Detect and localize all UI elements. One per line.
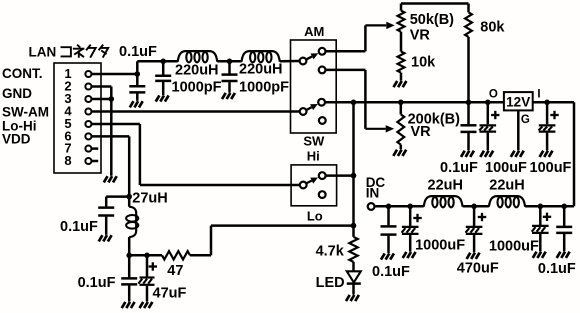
svg-text:VDD: VDD [2, 132, 31, 147]
svg-text:1000uF: 1000uF [415, 238, 465, 254]
svg-text:100uF: 100uF [530, 160, 572, 176]
svg-text:100uF: 100uF [485, 160, 527, 176]
svg-text:1000pF: 1000pF [239, 79, 289, 95]
svg-text:47uF: 47uF [153, 286, 187, 302]
svg-text:1000pF: 1000pF [172, 79, 222, 95]
svg-text:4.7k: 4.7k [316, 244, 345, 260]
svg-text:G: G [521, 114, 530, 126]
svg-text:22uH: 22uH [428, 178, 463, 194]
svg-text:0.1uF: 0.1uF [440, 160, 478, 176]
svg-text:AM: AM [304, 24, 324, 39]
svg-text:220uH: 220uH [239, 61, 283, 77]
svg-text:12V: 12V [506, 95, 530, 110]
svg-text:10k: 10k [411, 55, 436, 71]
svg-text:50k(B): 50k(B) [410, 12, 454, 28]
svg-text:80k: 80k [480, 20, 505, 36]
svg-text:47: 47 [167, 263, 183, 279]
svg-text:470uF: 470uF [457, 261, 499, 277]
svg-text:O: O [489, 89, 498, 101]
svg-text:SW: SW [303, 133, 325, 148]
svg-text:VR: VR [410, 27, 431, 43]
svg-text:Lo: Lo [307, 208, 323, 223]
svg-text:GND: GND [2, 86, 32, 101]
svg-text:22uH: 22uH [489, 178, 524, 194]
svg-text:27uH: 27uH [132, 190, 167, 206]
svg-text:0.1uF: 0.1uF [538, 261, 576, 277]
svg-text:LAN: LAN [29, 44, 57, 59]
svg-text:0.1uF: 0.1uF [119, 44, 157, 60]
svg-text:0.1uF: 0.1uF [78, 275, 116, 291]
svg-text:0.1uF: 0.1uF [372, 264, 410, 280]
svg-text:1000uF: 1000uF [489, 238, 539, 254]
svg-text:8: 8 [64, 153, 71, 168]
svg-text:SW-AM: SW-AM [2, 104, 49, 119]
svg-text:IN: IN [366, 185, 380, 200]
svg-text:0.1uF: 0.1uF [60, 219, 98, 235]
svg-text:I: I [537, 89, 540, 101]
svg-text:CONT.: CONT. [2, 66, 43, 81]
svg-text:LED: LED [316, 275, 345, 291]
svg-text:VR: VR [411, 124, 432, 140]
svg-text:220uH: 220uH [175, 63, 219, 79]
svg-text:Hi: Hi [307, 148, 320, 163]
